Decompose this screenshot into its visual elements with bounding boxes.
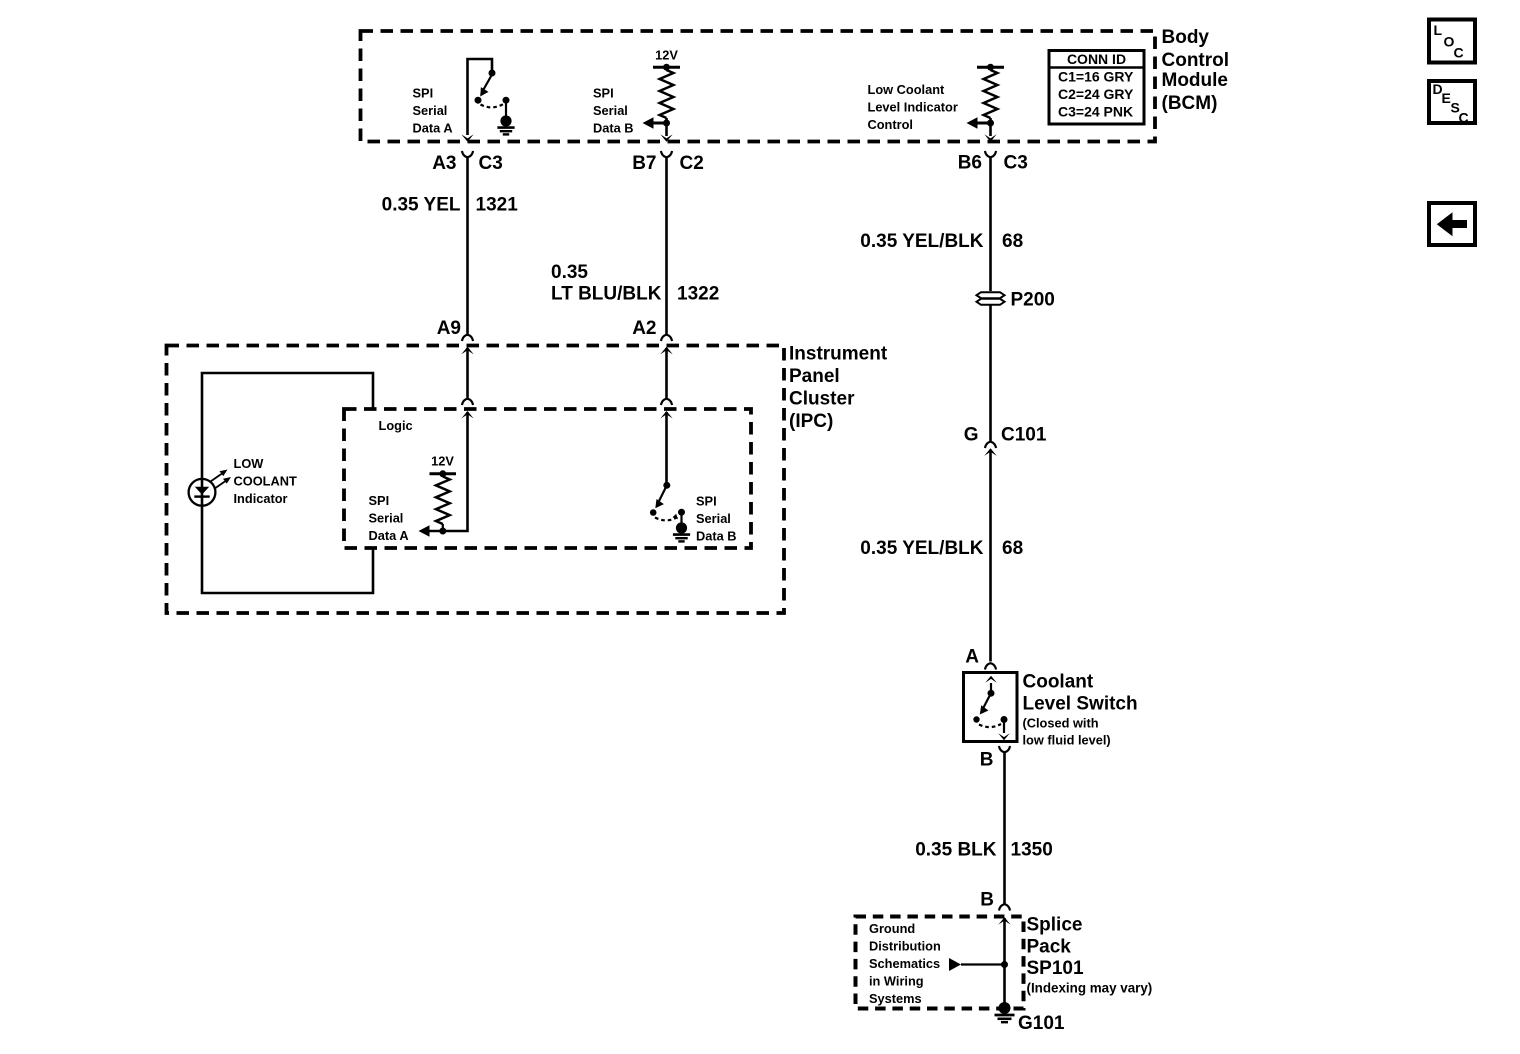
connector C101 cup <box>985 442 996 448</box>
svg-text:1322: 1322 <box>677 284 719 305</box>
reference pointer triangle <box>949 958 961 971</box>
indicator circuit frame (solid) <box>202 373 373 593</box>
IPC switch right contact <box>678 509 685 516</box>
IPC switch common dot <box>663 482 670 489</box>
switch S1 left contact <box>475 97 482 104</box>
wire label 0.35 LT BLU/BLK <box>551 262 662 305</box>
resistor R1 (SPI B pull-up) <box>660 70 674 118</box>
svg-text:1350: 1350 <box>1011 840 1053 861</box>
connector cup B7/C2 <box>661 151 672 157</box>
svg-text:SPI: SPI <box>593 86 614 101</box>
svg-text:Serial: Serial <box>369 511 404 526</box>
svg-text:SP101: SP101 <box>1027 958 1084 979</box>
connector cup B6/C3 <box>985 151 996 157</box>
svg-text:E: E <box>1442 90 1451 106</box>
wire: switch common to pin A3 C3 <box>468 59 493 135</box>
SPI Serial Data A label (IPC) <box>369 493 409 543</box>
wire: logic to SPI Serial Data A arrow <box>427 412 468 531</box>
arrow entering Logic box (wire A) <box>462 399 473 405</box>
12V supply bar (IPC) <box>430 472 457 475</box>
svg-text:Module: Module <box>1162 70 1229 91</box>
svg-text:Level Switch: Level Switch <box>1023 694 1138 715</box>
svg-text:0.35: 0.35 <box>551 262 588 283</box>
svg-text:Schematics: Schematics <box>869 956 940 971</box>
svg-text:Control: Control <box>868 117 914 132</box>
connector cup at splice entry <box>999 904 1010 910</box>
wire 68 middle <box>989 306 992 442</box>
Logic dashed box <box>344 409 751 548</box>
Splice Pack label <box>1027 915 1153 996</box>
wire 1322 (0.35 LT BLU/BLK) <box>665 158 668 335</box>
Ground Distribution reference label <box>869 921 941 1006</box>
connector cup at A2 <box>661 335 672 341</box>
svg-text:A: A <box>965 647 979 668</box>
svg-text:Control: Control <box>1162 50 1230 71</box>
switch S1 right contact <box>503 97 510 104</box>
svg-text:C3=24 PNK: C3=24 PNK <box>1058 104 1133 120</box>
svg-text:CONN ID: CONN ID <box>1067 51 1126 67</box>
wire 1350 (0.35 BLK) <box>1003 753 1006 904</box>
svg-text:COOLANT: COOLANT <box>234 474 297 489</box>
svg-text:Systems: Systems <box>869 991 922 1006</box>
IPC switch blade with arrowhead <box>659 488 666 501</box>
svg-text:SPI: SPI <box>369 493 390 508</box>
connector cup at A9 <box>462 335 473 341</box>
switch pin A arrow (inside box) <box>990 683 992 690</box>
switch S1 blade with arrowhead <box>484 75 493 90</box>
Coolant Level Switch box <box>964 673 1018 742</box>
resistor R3 (IPC pull-up) <box>436 477 450 525</box>
wire: right contact to pin B <box>1003 723 1005 734</box>
switch S1 in BCM: common dot <box>489 70 496 77</box>
svg-text:Data A: Data A <box>413 121 453 136</box>
svg-text:Distribution: Distribution <box>869 939 941 954</box>
junction dot <box>987 120 994 127</box>
svg-text:(BCM): (BCM) <box>1162 93 1218 114</box>
svg-text:0.35 YEL/BLK: 0.35 YEL/BLK <box>860 538 983 559</box>
SPI Serial Data B label (BCM) <box>593 86 634 136</box>
svg-text:Indicator: Indicator <box>234 491 288 506</box>
wire: right contact to ground (IPC) <box>680 515 682 523</box>
svg-text:Serial: Serial <box>413 103 448 118</box>
svg-text:68: 68 <box>1002 538 1023 559</box>
ground (IPC switch) <box>676 522 687 533</box>
Instrument Panel Cluster dashed box <box>167 346 785 614</box>
svg-text:(Closed with: (Closed with <box>1023 716 1099 731</box>
svg-text:B: B <box>980 890 994 911</box>
svg-text:C: C <box>1454 45 1464 61</box>
switch right contact <box>1001 716 1008 723</box>
svg-text:SPI: SPI <box>413 86 434 101</box>
Low Coolant Level Indicator Control label <box>868 82 958 132</box>
CONN ID table <box>1049 51 1144 125</box>
svg-text:LOW: LOW <box>234 456 265 471</box>
svg-text:Splice: Splice <box>1027 915 1083 936</box>
svg-text:Ground: Ground <box>869 921 915 936</box>
svg-text:C2: C2 <box>680 153 704 174</box>
BCM module name label <box>1162 27 1230 114</box>
DESC icon <box>1429 81 1475 126</box>
svg-text:Low Coolant: Low Coolant <box>868 82 946 97</box>
Body Control Module (BCM) dashed box <box>361 31 1156 142</box>
12V supply bar <box>653 66 680 69</box>
svg-text:low fluid level): low fluid level) <box>1023 733 1111 748</box>
arrow entering Logic box (wire B) <box>661 399 672 405</box>
arrow to SPI Serial Data B <box>650 122 667 125</box>
wire 68 upper (0.35 YEL/BLK) <box>989 158 992 292</box>
Coolant Level Switch label <box>1023 672 1138 748</box>
svg-text:B7: B7 <box>632 153 656 174</box>
switch blade with arrowhead <box>984 696 990 708</box>
SPI Serial Data B label (IPC) <box>696 494 737 544</box>
LOC icon <box>1429 20 1475 63</box>
svg-text:(Indexing may vary): (Indexing may vary) <box>1027 981 1153 996</box>
supply bar (low coolant control) <box>977 66 1004 69</box>
Splice Pack SP101 dashed box <box>856 917 1024 1009</box>
svg-text:P200: P200 <box>1011 290 1055 311</box>
svg-text:Serial: Serial <box>696 511 731 526</box>
svg-text:G101: G101 <box>1018 1013 1065 1034</box>
arrow into pin B7 C2 <box>660 134 672 142</box>
svg-text:C3: C3 <box>479 153 503 174</box>
svg-text:0.35 YEL/BLK: 0.35 YEL/BLK <box>860 231 983 252</box>
svg-text:C1=16 GRY: C1=16 GRY <box>1058 69 1134 85</box>
IPC switch left contact <box>650 509 657 516</box>
switch common dot <box>988 690 995 697</box>
svg-text:Logic: Logic <box>379 418 413 433</box>
svg-text:Data B: Data B <box>696 529 737 544</box>
LED low coolant indicator <box>189 470 231 506</box>
svg-text:B: B <box>980 750 994 771</box>
svg-text:LT BLU/BLK: LT BLU/BLK <box>551 284 662 305</box>
svg-text:Cluster: Cluster <box>789 389 855 410</box>
junction dot <box>663 120 670 127</box>
svg-text:Panel: Panel <box>789 366 840 387</box>
wire: pointer to splice junction <box>961 963 1005 965</box>
svg-text:A9: A9 <box>437 318 461 339</box>
wire: right contact to ground <box>505 103 507 116</box>
svg-text:Pack: Pack <box>1027 937 1072 958</box>
svg-text:Body: Body <box>1162 27 1210 48</box>
svg-text:B6: B6 <box>958 153 982 174</box>
svg-text:12V: 12V <box>431 454 454 469</box>
arrow into pin A3 C3 <box>461 134 473 142</box>
svg-text:A2: A2 <box>632 318 656 339</box>
svg-text:C3: C3 <box>1004 153 1028 174</box>
wire: logic to IPC switch <box>665 412 668 482</box>
wire 1321 (0.35 YEL) <box>466 158 469 335</box>
svg-text:Data A: Data A <box>369 528 409 543</box>
svg-text:A3: A3 <box>432 153 456 174</box>
ground G101 <box>999 1002 1011 1014</box>
svg-text:1321: 1321 <box>476 195 519 216</box>
switch S1 dashed travel arc <box>481 104 504 107</box>
junction dot on Data A line <box>439 528 446 535</box>
svg-text:68: 68 <box>1002 231 1023 252</box>
P200 pass-through grommet <box>977 292 1005 305</box>
svg-text:12V: 12V <box>655 48 678 63</box>
arrow entering IPC at A2 <box>660 347 672 355</box>
svg-text:0.35 YEL: 0.35 YEL <box>382 195 461 216</box>
ground (BCM switch) <box>500 115 511 126</box>
switch dashed travel arc <box>979 724 1001 727</box>
arrow into pin B6 C3 <box>984 134 996 142</box>
connector cup at pin B <box>999 746 1010 752</box>
connector cup at pin A <box>985 663 996 669</box>
svg-text:0.35 BLK: 0.35 BLK <box>915 840 997 861</box>
svg-text:Coolant: Coolant <box>1023 672 1094 693</box>
svg-text:in Wiring: in Wiring <box>869 974 924 989</box>
arrow entering splice pack <box>998 917 1010 925</box>
switch left contact <box>973 716 979 722</box>
connector cup A3/C3 <box>462 151 473 157</box>
LOW COOLANT Indicator label <box>234 456 297 506</box>
svg-text:C101: C101 <box>1001 425 1047 446</box>
svg-text:Serial: Serial <box>593 103 628 118</box>
svg-text:Level Indicator: Level Indicator <box>868 100 958 115</box>
IPC module name label <box>789 344 888 433</box>
svg-text:(IPC): (IPC) <box>789 411 833 432</box>
svg-text:L: L <box>1434 22 1443 38</box>
IPC switch dashed travel arc <box>655 517 678 520</box>
svg-text:C: C <box>1459 110 1469 126</box>
arrow entering IPC at A9 <box>461 347 473 355</box>
svg-text:G: G <box>964 425 979 446</box>
resistor R2 (low coolant control) <box>984 70 998 118</box>
svg-text:Data B: Data B <box>593 121 634 136</box>
splice junction dot <box>1001 961 1008 968</box>
SPI Serial Data A label (BCM) <box>413 86 453 136</box>
svg-text:C2=24 GRY: C2=24 GRY <box>1058 86 1134 102</box>
svg-text:SPI: SPI <box>696 494 717 509</box>
arrow to low coolant control <box>974 122 991 125</box>
svg-text:Instrument: Instrument <box>789 344 888 365</box>
back arrow icon <box>1429 203 1475 245</box>
arrow to SPI Serial Data A (IPC) <box>419 525 430 537</box>
connector C101 arrow <box>984 448 996 456</box>
